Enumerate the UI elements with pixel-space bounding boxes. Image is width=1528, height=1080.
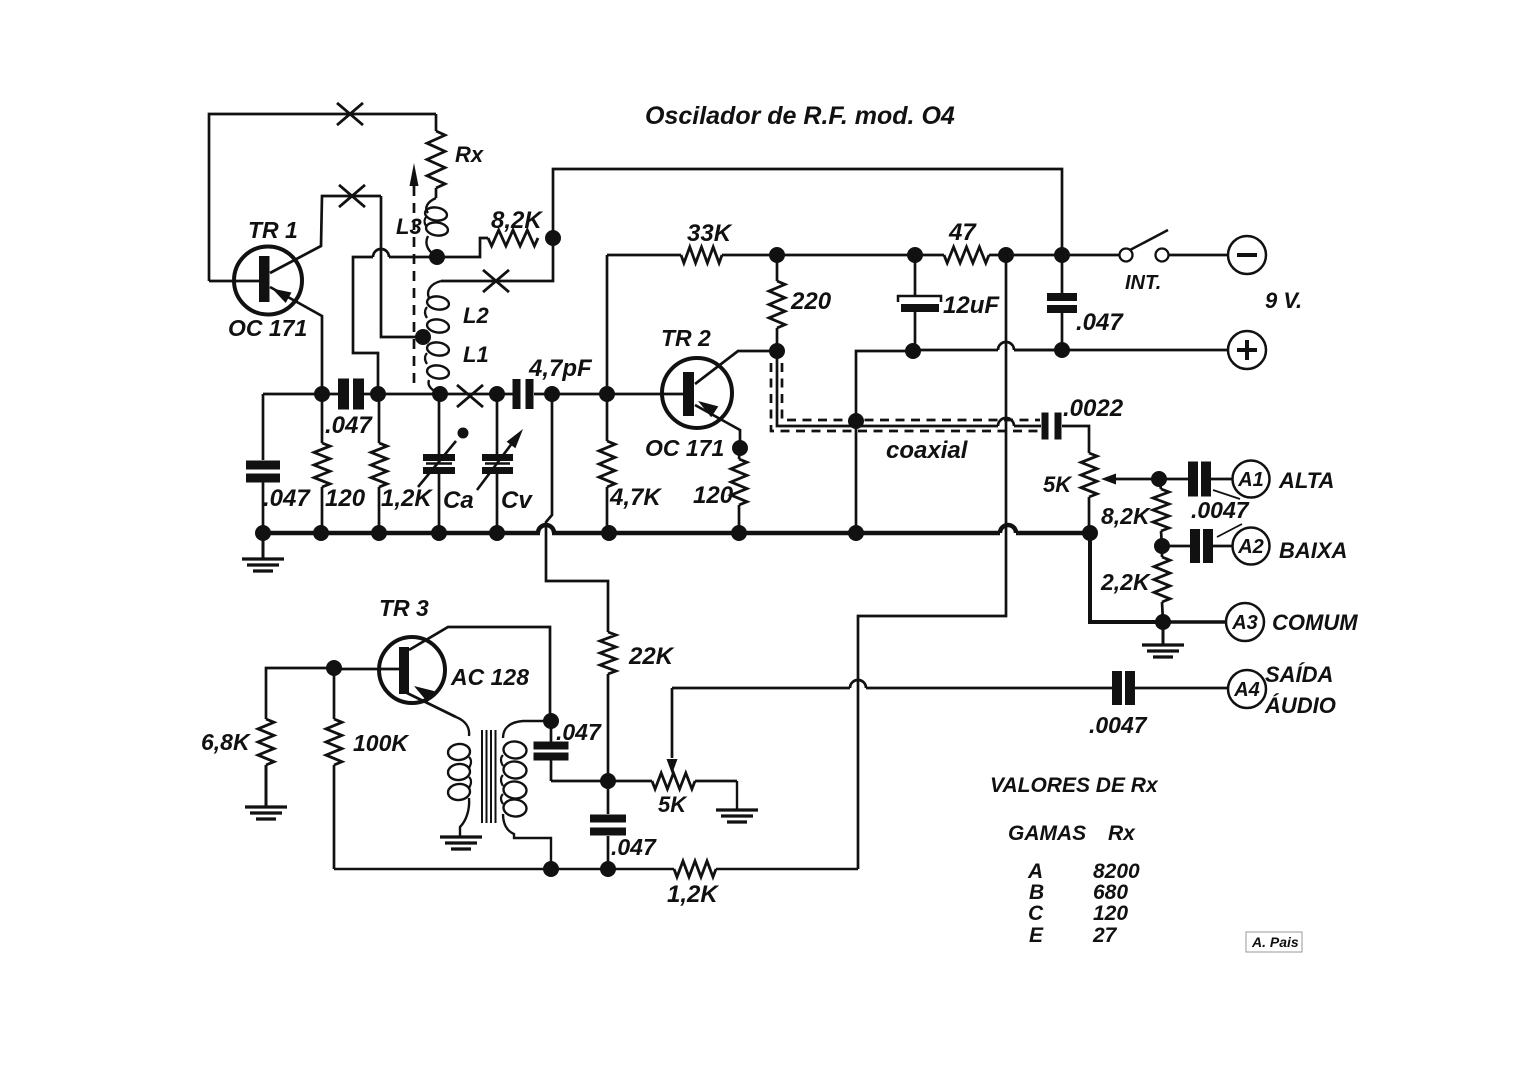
resistor 220: [769, 255, 785, 351]
trimmer capacitor Ca: [418, 394, 469, 533]
svg-text:120: 120: [1093, 902, 1128, 925]
node TR2 base: [599, 386, 615, 402]
leader A1: [1213, 490, 1240, 499]
svg-text:120: 120: [325, 485, 366, 512]
ground transformer: [440, 837, 482, 849]
svg-text:TR 1: TR 1: [248, 217, 298, 243]
label 5K volume: [658, 792, 688, 817]
svg-text:A: A: [1027, 860, 1043, 883]
leader A2: [1217, 524, 1242, 537]
transistor TR1: [234, 247, 302, 315]
label GAMAS: [1008, 822, 1086, 845]
svg-text:A. Pais: A. Pais: [1251, 934, 1299, 950]
potentiometer 5K volume: [652, 773, 737, 789]
svg-text:COMUM: COMUM: [1272, 610, 1358, 635]
resistor 2.2K output: [1154, 546, 1170, 622]
svg-text:120: 120: [693, 482, 734, 509]
label TR3: [379, 595, 429, 621]
node 12uF bottom: [905, 343, 921, 359]
wire TR2 collector: [695, 351, 777, 384]
label 6.8K: [201, 729, 251, 755]
terminal A2: [1233, 528, 1270, 565]
node L1 bottom: [432, 386, 448, 402]
node bus cap left: [255, 525, 271, 541]
label SAIDA: [1265, 662, 1333, 687]
wire audio out: [672, 680, 1113, 688]
svg-text:220: 220: [790, 288, 832, 315]
svg-text:680: 680: [1093, 881, 1128, 904]
resistor 1.2K TR1: [371, 394, 387, 533]
wire TR3 emitter: [407, 693, 456, 717]
capacitor .047 TR3 lower: [590, 781, 626, 869]
svg-text:1,2K: 1,2K: [381, 485, 433, 512]
wire emitter rail left: [263, 393, 339, 396]
svg-text:ALTA: ALTA: [1278, 468, 1334, 493]
label L2: [463, 303, 489, 328]
wire minus feed down: [858, 255, 1006, 869]
label .047 supply: [1076, 309, 1124, 336]
wire .047 left to bus: [262, 481, 265, 533]
svg-text:.047: .047: [611, 834, 657, 860]
resistor 1.2K bottom: [674, 861, 858, 877]
svg-text:22K: 22K: [628, 643, 675, 670]
capacitor .0022: [1042, 413, 1062, 440]
label 2.2K output: [1100, 569, 1151, 595]
5K volume wiper arrow: [667, 688, 678, 774]
node 33K right: [769, 247, 785, 263]
svg-text:5K: 5K: [658, 792, 688, 817]
terminal A3: [1226, 603, 1264, 641]
variable capacitor Cv: [477, 394, 523, 533]
svg-text:Rx: Rx: [455, 142, 484, 167]
wire 4.7pF to TR2 base: [534, 393, 683, 396]
label L3: [396, 214, 422, 239]
resistor Rx: [427, 114, 445, 198]
label 8.2K output: [1101, 503, 1151, 529]
label TR2: [661, 325, 711, 351]
label 47: [948, 219, 977, 246]
capacitor 12uF electrolytic: [898, 255, 941, 351]
label 22K: [628, 643, 675, 670]
ground main: [242, 533, 284, 571]
wire TR3 collector: [409, 627, 550, 721]
resistor 120 TR2: [731, 448, 747, 533]
ground 5K volume: [716, 781, 758, 822]
label Rx: [455, 142, 484, 167]
table row A: [1027, 860, 1140, 883]
coax center wire: [777, 351, 1041, 426]
svg-text:L2: L2: [463, 303, 489, 328]
label .047 TR3 lower: [611, 834, 657, 860]
resistor 8.2K output: [1153, 479, 1169, 546]
crossing X4 on rail: [457, 385, 483, 407]
potentiometer 5K output: [1081, 453, 1097, 533]
svg-text:C: C: [1028, 902, 1044, 925]
label .047 TR3 collector: [556, 719, 602, 745]
wire 33K to TR2 base: [606, 255, 609, 394]
svg-text:1,2K: 1,2K: [667, 881, 719, 908]
label 100K: [353, 730, 409, 756]
label Rx col: [1108, 822, 1136, 845]
label L1: [463, 342, 489, 367]
svg-text:8,2K: 8,2K: [1101, 503, 1151, 529]
label VALORES DE Rx: [990, 774, 1159, 797]
crossing X3 on L2 wire: [483, 270, 509, 292]
label ALTA: [1278, 468, 1334, 493]
svg-text:12uF: 12uF: [943, 292, 1000, 319]
label 1.2K TR1: [381, 485, 433, 512]
label 33K: [687, 220, 733, 247]
capacitor 4.7pF: [513, 379, 534, 409]
svg-text:47: 47: [948, 219, 977, 246]
wire cap to A4: [1134, 687, 1228, 690]
node bus Ca: [431, 525, 447, 541]
wire rail cap to L1: [363, 393, 440, 396]
wire L1 to 4.7pF: [440, 393, 513, 396]
transformer core: [482, 730, 496, 823]
node TR3 base: [326, 660, 342, 676]
battery minus terminal: [1168, 236, 1266, 274]
crossing X1 on top wire: [337, 103, 363, 125]
label AC128: [450, 664, 529, 690]
node .047 supply bottom: [1054, 342, 1070, 358]
svg-text:L3: L3: [396, 214, 422, 239]
label BAIXA: [1279, 538, 1347, 563]
transistor TR3: [379, 637, 445, 703]
ground 6.8K: [245, 807, 287, 819]
transistor TR2: [662, 358, 732, 428]
svg-text:100K: 100K: [353, 730, 409, 756]
svg-text:Cv: Cv: [501, 487, 533, 514]
capacitor .047 supply: [1047, 255, 1077, 350]
svg-text:6,8K: 6,8K: [201, 729, 251, 755]
resistor 8.2K top: [488, 230, 538, 246]
node cap right: [370, 386, 386, 402]
wire L3-node to 8.2K: [437, 238, 488, 257]
svg-text:8,2K: 8,2K: [491, 207, 543, 234]
node bus shield: [848, 525, 864, 541]
resistor 47: [944, 247, 1119, 263]
capacitor .0047 A1: [1159, 462, 1232, 497]
svg-text:.0047: .0047: [1089, 712, 1148, 738]
svg-text:27: 27: [1092, 924, 1118, 947]
TR2 emitter arrow (PNP): [698, 401, 718, 417]
label OC171 for TR1: [228, 315, 307, 341]
node TR2 collector: [769, 343, 785, 359]
label coaxial: [886, 437, 969, 464]
table row B: [1029, 881, 1128, 904]
5K wiper arrow: [1101, 474, 1159, 485]
node bus A3 branch: [1082, 525, 1098, 541]
svg-text:A1: A1: [1237, 469, 1264, 491]
node .047 lower bottom: [600, 861, 616, 877]
node TR3 collector cap: [543, 713, 559, 729]
label .047 left: [263, 485, 311, 512]
title: [645, 102, 955, 130]
label .0022: [1063, 395, 1124, 422]
wire collector to L2 tap: [381, 196, 421, 337]
svg-text:4,7pF: 4,7pF: [528, 355, 593, 382]
svg-text:INT.: INT.: [1125, 272, 1161, 294]
TR3 emitter arrow (PNP): [414, 686, 434, 702]
svg-text:.047: .047: [263, 485, 311, 512]
svg-text:TR 2: TR 2: [661, 325, 711, 351]
wire L3-node hop left to cap: [353, 249, 437, 394]
node wiper: [1151, 471, 1167, 487]
node 12uF top: [907, 247, 923, 263]
wire cap to 22K node: [551, 780, 652, 783]
table row E: [1029, 924, 1118, 947]
node bus 4.7K: [601, 525, 617, 541]
svg-text:AC 128: AC 128: [450, 664, 529, 690]
svg-text:8200: 8200: [1093, 860, 1140, 883]
resistor 120 TR1: [314, 394, 330, 533]
node bus 120 TR2: [731, 525, 747, 541]
svg-text:5K: 5K: [1043, 472, 1073, 497]
label .0047 A4: [1089, 712, 1148, 738]
wire bus to A3 row: [1090, 533, 1163, 622]
svg-text:OC 171: OC 171: [228, 315, 307, 341]
svg-text:A2: A2: [1237, 536, 1264, 558]
terminal A1: [1233, 461, 1270, 498]
inductor L2 L1: [425, 281, 450, 393]
svg-text:Oscilador de R.F. mod. O4: Oscilador de R.F. mod. O4: [645, 102, 955, 130]
label 5K output: [1043, 472, 1073, 497]
label Ca: [443, 487, 474, 514]
label .047 TR1 coupling: [325, 412, 373, 439]
wire minus rail: [777, 254, 944, 257]
inductor L3: [424, 198, 449, 256]
wire rail down to .047 left: [262, 394, 265, 460]
wire base to 6.8K: [266, 668, 334, 719]
svg-text:Rx: Rx: [1108, 822, 1136, 845]
capacitor .047 TR3 collector: [534, 721, 569, 781]
battery plus terminal: [1014, 331, 1266, 369]
svg-text:E: E: [1029, 924, 1044, 947]
node shield on coax: [848, 413, 864, 429]
label AUDIO: [1264, 693, 1336, 718]
svg-text:TR 3: TR 3: [379, 595, 429, 621]
svg-text:.0022: .0022: [1063, 395, 1124, 422]
svg-text:ÁUDIO: ÁUDIO: [1264, 693, 1336, 718]
wire TR1 collector lead: [270, 196, 381, 273]
label OC171 for TR2: [645, 435, 724, 461]
node 8.2K right: [545, 230, 561, 246]
svg-text:L1: L1: [463, 342, 489, 367]
wire 4.7pF node down: [546, 394, 608, 632]
node A2 junction: [1154, 538, 1170, 554]
label .0047 A1A2: [1191, 497, 1250, 523]
node TR1 emitter rail: [314, 386, 330, 402]
svg-text:33K: 33K: [687, 220, 733, 247]
TR1 emitter arrow (PNP): [272, 289, 292, 304]
label Cv: [501, 487, 533, 514]
resistor 4.7K: [599, 394, 615, 533]
node transformer return: [543, 861, 559, 877]
label COMUM: [1272, 610, 1358, 635]
coax shield dashed upper: [782, 363, 1040, 420]
svg-text:VALORES DE Rx: VALORES DE Rx: [990, 774, 1159, 797]
wire top-left feedback loop: [209, 114, 436, 281]
node 22K bottom: [600, 773, 616, 789]
label INT: [1125, 272, 1161, 294]
wire TR2 emitter: [695, 405, 740, 448]
svg-text:A4: A4: [1233, 679, 1260, 701]
capacitor .0047 A2: [1162, 529, 1232, 563]
capacitor .0047 A4: [1112, 671, 1135, 705]
label A. Pais: [1246, 932, 1302, 952]
resistor 6.8K: [258, 719, 274, 806]
svg-text:.047: .047: [325, 412, 373, 439]
label 8.2K top: [491, 207, 543, 234]
terminal A4: [1228, 670, 1266, 708]
svg-text:B: B: [1029, 881, 1044, 904]
transformer secondary: [501, 721, 551, 869]
wire plus rail hop: [913, 342, 1062, 350]
svg-text:9 V.: 9 V.: [1265, 288, 1302, 313]
label TR1: [248, 217, 298, 243]
node bus Cv: [489, 525, 505, 541]
label 9V: [1265, 288, 1302, 313]
label 120 TR2: [693, 482, 734, 509]
node TR2 emitter: [732, 440, 748, 456]
wire 12uF bottom to shield: [856, 351, 913, 533]
node minus rail x1006: [998, 247, 1014, 263]
wire TR3 base: [334, 668, 400, 671]
svg-text:.0047: .0047: [1191, 497, 1250, 523]
wire TR1 emitter lead: [270, 287, 322, 394]
svg-text:Ca: Ca: [443, 487, 474, 514]
table row C: [1028, 902, 1128, 925]
crossing X2 on collector wire: [339, 185, 365, 207]
svg-text:.047: .047: [556, 719, 602, 745]
ground A3: [1142, 622, 1184, 657]
resistor 33K: [607, 247, 777, 263]
capacitor .047 TR1 coupling: [338, 379, 364, 410]
label 4.7K: [609, 484, 662, 511]
label 4.7pF: [528, 355, 593, 382]
svg-text:4,7K: 4,7K: [609, 484, 662, 511]
svg-text:GAMAS: GAMAS: [1008, 822, 1086, 845]
node bus 120: [313, 525, 329, 541]
node A3 junction: [1155, 614, 1171, 630]
label 1.2K bottom: [667, 881, 719, 908]
label 12uF: [943, 292, 1000, 319]
wire A3 comum: [1163, 620, 1226, 624]
wire 8.2K node down to L2 top: [441, 238, 553, 281]
label 220: [790, 288, 832, 315]
dashed tuning slug arrow: [410, 163, 419, 388]
svg-text:SAÍDA: SAÍDA: [1265, 662, 1333, 687]
switch INT: [1120, 230, 1169, 262]
node L3 bottom: [429, 249, 445, 265]
node Cv top: [489, 386, 505, 402]
ground bus: [263, 525, 1090, 533]
node bus 1.2K: [371, 525, 387, 541]
svg-text:coaxial: coaxial: [886, 437, 969, 464]
capacitor .047 left: [246, 461, 280, 483]
wire TR1 base lead: [209, 280, 260, 283]
svg-text:BAIXA: BAIXA: [1279, 538, 1347, 563]
resistor 100K: [326, 668, 342, 869]
wire .0022 to 5K pot: [1062, 426, 1089, 453]
node 4.7pF right: [544, 386, 560, 402]
svg-text:2,2K: 2,2K: [1100, 569, 1151, 595]
label 120 TR1: [325, 485, 366, 512]
svg-text:A3: A3: [1231, 612, 1258, 634]
transformer primary: [447, 717, 471, 836]
svg-text:.047: .047: [1076, 309, 1124, 336]
resistor 22K: [600, 632, 616, 781]
node L2-L1 tap: [415, 329, 431, 345]
wire node to minus rail top: [553, 169, 1062, 255]
bottom bus wire: [334, 868, 674, 870]
coax shield dashed lower: [771, 363, 1040, 431]
svg-text:OC 171: OC 171: [645, 435, 724, 461]
node minus rail x1062: [1054, 247, 1070, 263]
